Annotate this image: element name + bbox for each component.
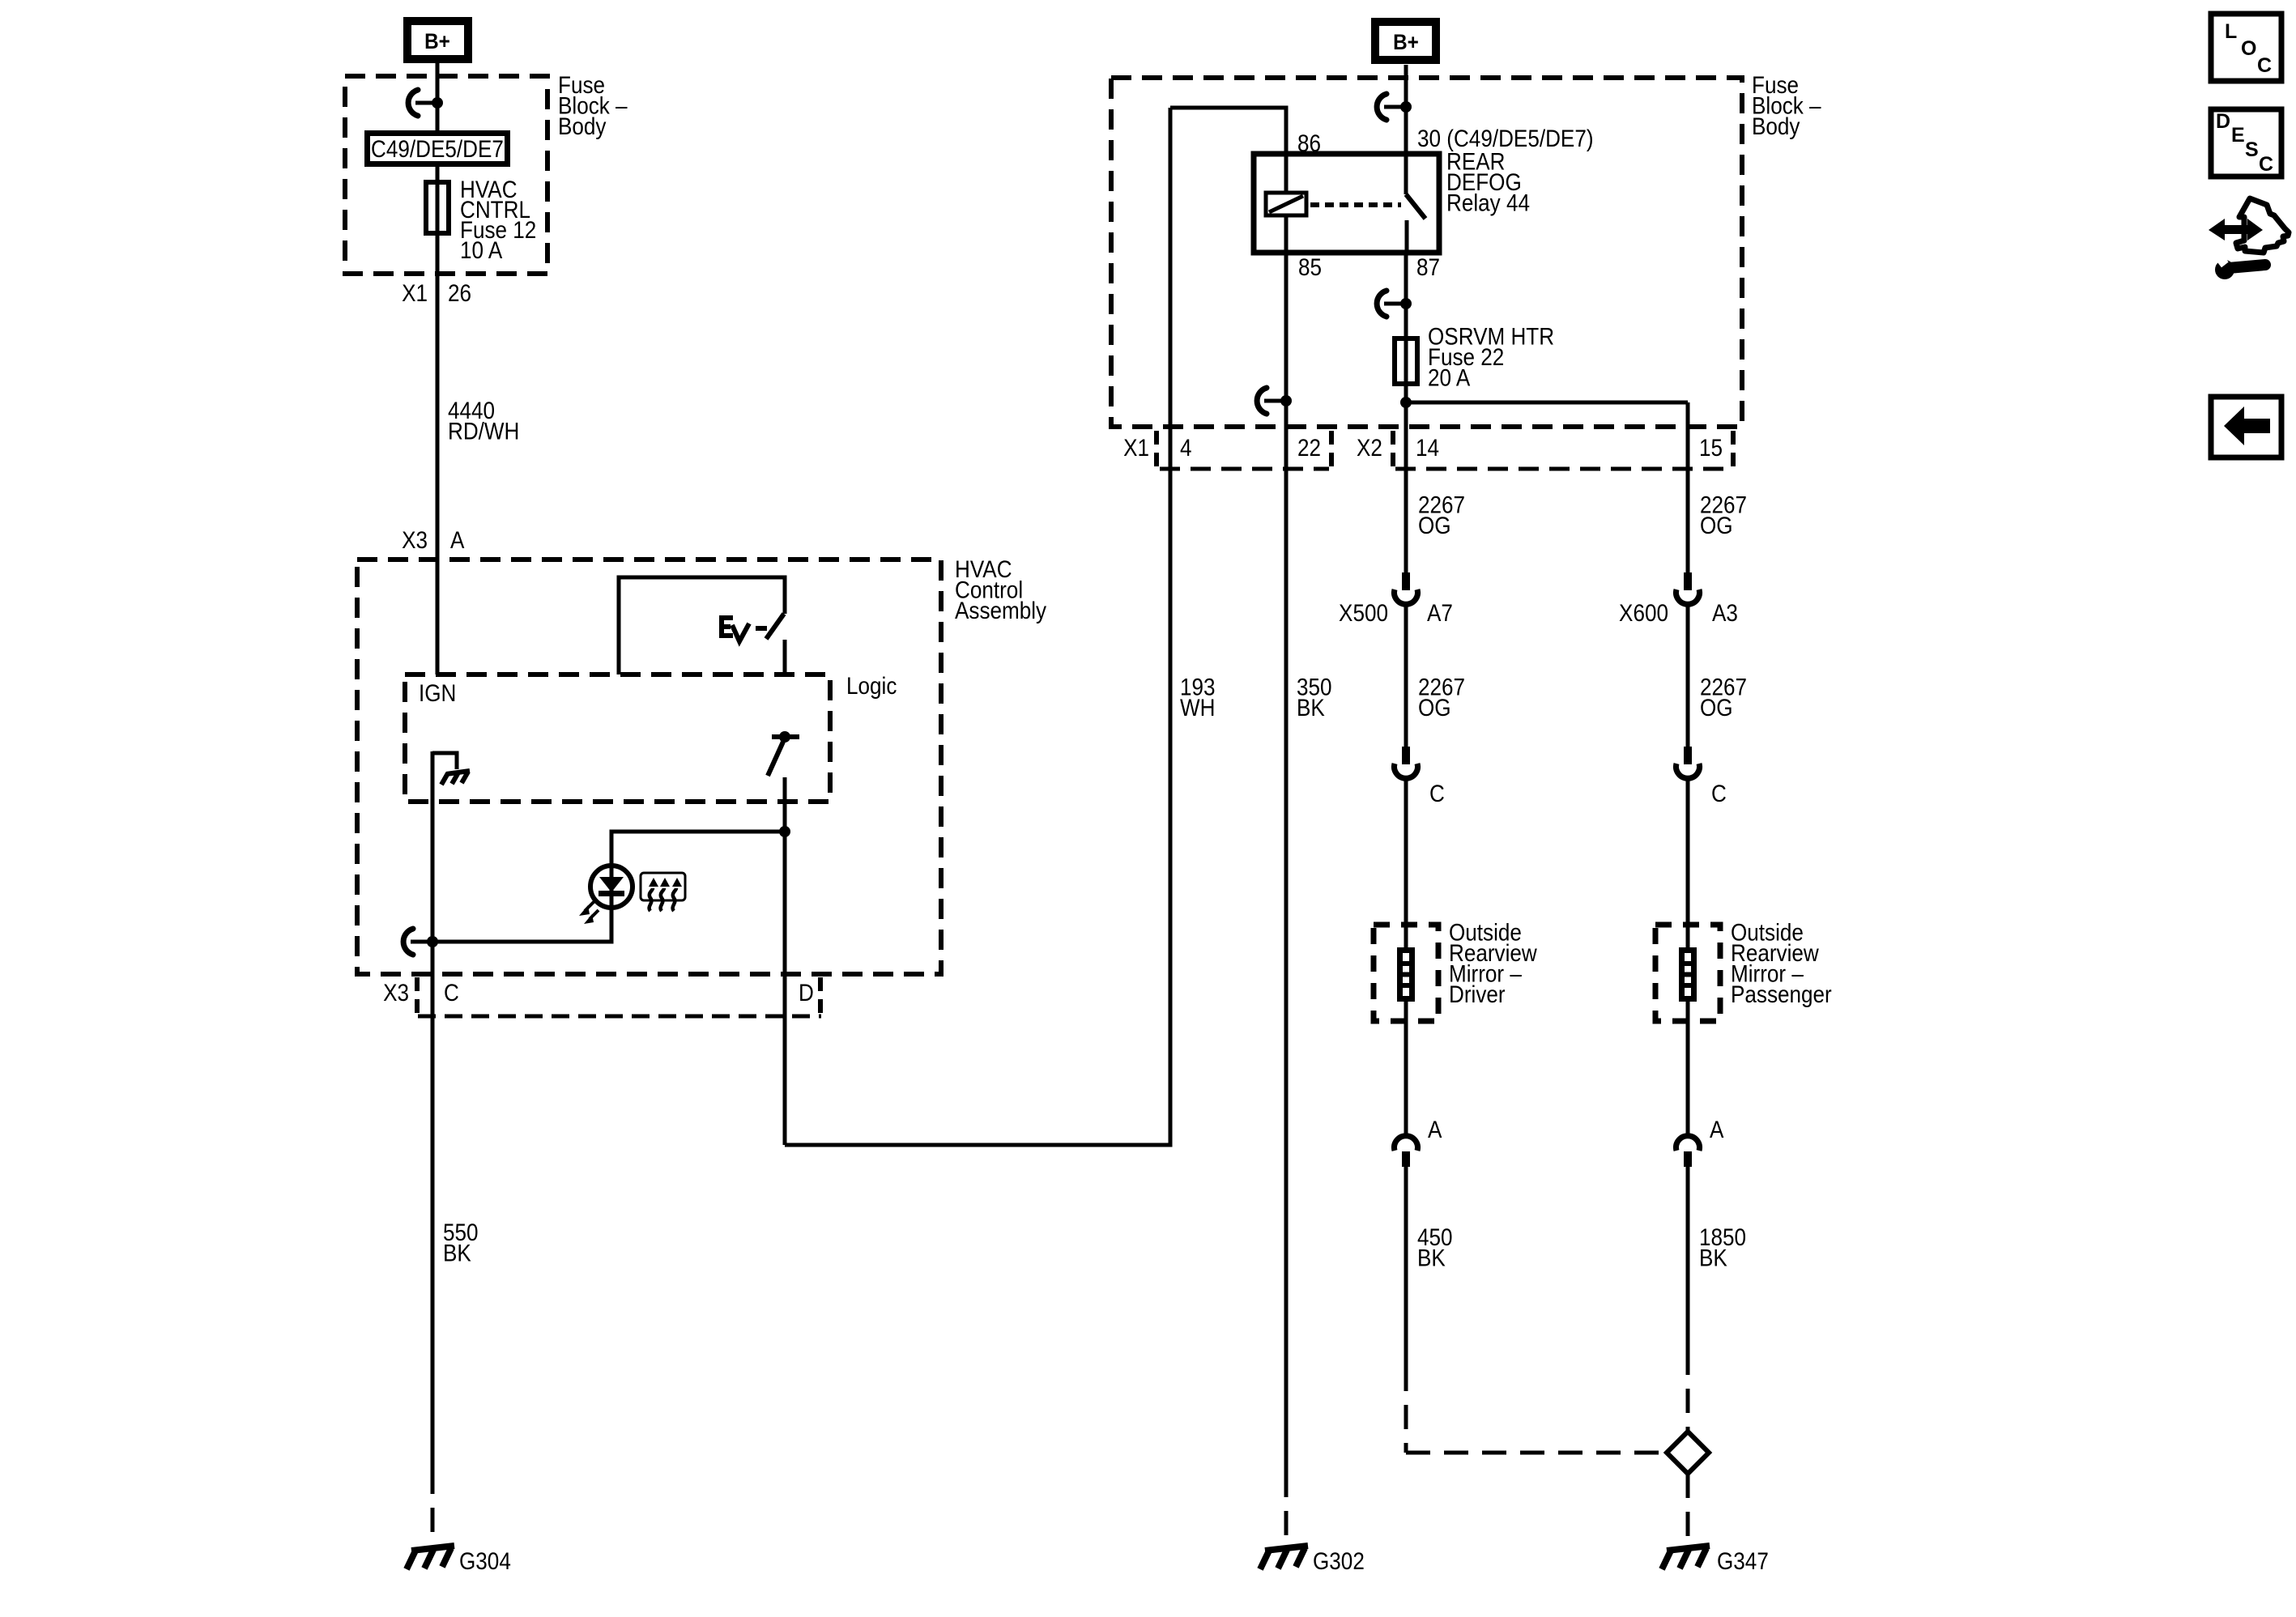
dashed wire 450 BK to splice [1406, 1367, 1667, 1453]
fuse block body (right) label [1752, 71, 1821, 139]
wire label 2267 OG (pin 15, upper) [1700, 491, 1747, 539]
wire 550 BK dashed to ground [431, 1470, 435, 1545]
svg-text:Assembly: Assembly [955, 597, 1046, 623]
Outside Rearview Mirror - Driver box and heater element [1374, 925, 1438, 1021]
svg-text:B+: B+ [424, 30, 450, 53]
connector X600 pin A3 [1676, 572, 1699, 604]
in-line clip at LED junction [403, 929, 438, 955]
svg-text:BK: BK [1699, 1245, 1727, 1271]
svg-text:G347: G347 [1717, 1547, 1769, 1574]
fuse block body (left) dashed box [345, 76, 547, 274]
svg-text:BK: BK [1297, 694, 1325, 721]
svg-text:X3: X3 [402, 526, 428, 553]
svg-text:IGN: IGN [419, 679, 456, 706]
svg-text:14: 14 [1416, 434, 1439, 461]
svg-text:OG: OG [1700, 512, 1733, 538]
connector X500 pin A7 [1395, 572, 1418, 604]
relay switch blade [1406, 194, 1425, 253]
svg-text:X500: X500 [1339, 599, 1388, 626]
wire label 2267 OG (pin 14, upper) [1418, 491, 1465, 539]
splice diamond [1667, 1432, 1709, 1474]
wire X600 to mirror passenger (2267 OG) [1686, 605, 1690, 747]
svg-text:86: 86 [1297, 130, 1321, 156]
DESC icon box [2211, 109, 2281, 177]
defog momentary switch blade [766, 614, 784, 639]
wire label 1850 BK [1699, 1223, 1746, 1271]
wire relay 87 to fuse 22 [1404, 253, 1408, 336]
svg-text:30 (C49/DE5/DE7): 30 (C49/DE5/DE7) [1417, 125, 1594, 151]
ground G302 label [1313, 1547, 1365, 1574]
connector C (passenger) [1676, 747, 1699, 778]
wire label 2267 OG (driver, lower) [1418, 674, 1465, 721]
in-line clip connector at left B+ feed [408, 90, 443, 116]
wire label 2267 OG (passenger, lower) [1700, 674, 1747, 721]
relay name label [1446, 148, 1530, 216]
svg-text:A3: A3 [1712, 599, 1738, 626]
dashed wire splice to ground G347 [1686, 1474, 1690, 1545]
svg-text:A: A [1710, 1116, 1724, 1143]
back arrow icon box [2211, 397, 2281, 457]
svg-text:A: A [450, 526, 465, 553]
svg-text:X600: X600 [1619, 599, 1668, 626]
wire X500 to mirror driver (2267 OG) [1404, 605, 1408, 747]
svg-text:BK: BK [443, 1240, 471, 1266]
logic output switch (internal) [768, 731, 799, 776]
ground G347 symbol [1662, 1546, 1710, 1569]
fuse block body (right) dashed box [1111, 78, 1742, 427]
wire label 550 BK [443, 1219, 479, 1266]
ground G304 label [459, 1547, 511, 1574]
svg-text:Body: Body [558, 113, 606, 139]
wire 450 BK down (solid then dashed) [1404, 1167, 1408, 1367]
wire pin 15 branch down [1686, 402, 1690, 572]
relay pin labels 85 / 87 [1298, 253, 1440, 280]
svg-text:X3: X3 [383, 979, 409, 1006]
wire mirror passenger to connector A [1686, 1002, 1690, 1134]
svg-text:D: D [799, 979, 814, 1006]
svg-text:C: C [2257, 54, 2272, 77]
wire logic switch to D pin [783, 777, 787, 1145]
svg-text:26: 26 [448, 279, 471, 306]
svg-text:C: C [1711, 780, 1727, 806]
svg-text:85: 85 [1298, 253, 1322, 280]
junction LED branch / ground wire [427, 936, 438, 947]
internal chassis ground symbol [441, 771, 470, 785]
wire fuse 22 to junction and pin 14 [1404, 386, 1408, 572]
wire 1850 BK down (solid then dashed) [1686, 1167, 1690, 1432]
svg-text:Relay 44: Relay 44 [1446, 189, 1530, 216]
wire D jog to 193 WH [785, 108, 1170, 1145]
svg-text:Body: Body [1752, 113, 1800, 139]
hand with wrench icon [2209, 198, 2289, 279]
svg-text:Driver: Driver [1449, 981, 1506, 1007]
fuse 22 value label [1428, 323, 1554, 391]
HVAC X3 connector row [383, 977, 821, 1016]
svg-text:OG: OG [1418, 512, 1451, 538]
svg-text:G302: G302 [1313, 1547, 1365, 1574]
Logic label [846, 672, 897, 699]
svg-text:Passenger: Passenger [1731, 981, 1832, 1007]
heated rear window indicator icon [641, 873, 685, 911]
svg-text:22: 22 [1297, 434, 1321, 461]
C label (passenger) [1711, 780, 1727, 806]
svg-text:C: C [2259, 153, 2273, 176]
wire C49 to fuse 12 [436, 167, 440, 180]
svg-text:C: C [444, 979, 459, 1006]
ground G347 label [1717, 1547, 1769, 1574]
connector C49/DE5/DE7 box [368, 134, 508, 164]
A label (driver) [1428, 1116, 1442, 1143]
Logic dashed box [405, 674, 830, 802]
wire relay 85 to pin 22 (350 BK) [1284, 253, 1289, 1473]
X500 / A7 labels [1339, 599, 1453, 626]
pin labels X1 | 26 [402, 279, 471, 306]
svg-text:C49/DE5/DE7: C49/DE5/DE7 [371, 135, 504, 162]
REAR DEFOG Relay 44 box [1254, 154, 1439, 253]
wire label 4440 RD/WH [448, 397, 519, 445]
connector A (passenger) [1676, 1136, 1699, 1167]
LED branch wire [611, 832, 785, 865]
svg-text:X2: X2 [1357, 434, 1382, 461]
wire 350 BK dashed to ground G302 [1284, 1473, 1289, 1545]
wire B+ to relay pin 30 [1404, 65, 1408, 194]
svg-text:A: A [1428, 1116, 1442, 1143]
Outside Rearview Mirror - Driver label [1449, 919, 1537, 1008]
LED indicator [590, 866, 633, 908]
C label (driver) [1429, 780, 1445, 806]
svg-text:OG: OG [1418, 694, 1451, 721]
svg-text:E: E [2231, 124, 2245, 147]
fuse 12 value label [460, 176, 536, 263]
svg-text:D: D [2216, 110, 2230, 133]
wire C to mirror heater (passenger) [1686, 779, 1690, 947]
connector A (driver) [1395, 1136, 1418, 1167]
svg-text:87: 87 [1416, 253, 1440, 280]
wire label 350 BK [1297, 674, 1332, 721]
switch actuator symbol E v - [722, 615, 767, 641]
HVAC CNTRL fuse 12 symbol [426, 180, 449, 236]
svg-text:L: L [2225, 20, 2237, 43]
svg-text:X1: X1 [402, 279, 428, 306]
wire relay pin 86 loop to 193 WH [1170, 108, 1286, 154]
fuse block X1/X2 connector row [1123, 431, 1733, 469]
svg-text:15: 15 [1699, 434, 1723, 461]
wire fuse 12 to HVAC control assembly (4440 RD/WH) [436, 236, 440, 674]
svg-text:10 A: 10 A [460, 236, 502, 263]
wire C to mirror heater (driver) [1404, 779, 1408, 947]
B+ power terminal (left) [407, 21, 468, 59]
ground G304 symbol [407, 1546, 454, 1569]
svg-text:A7: A7 [1427, 599, 1453, 626]
LED emission arrows [579, 900, 598, 924]
internal ground wire (logic) [432, 753, 457, 769]
in-line clip below pin 87 [1377, 291, 1412, 317]
Outside Rearview Mirror - Passenger label [1731, 919, 1832, 1008]
svg-text:20 A: 20 A [1428, 364, 1470, 391]
OSRVM HTR fuse 22 symbol [1395, 336, 1417, 386]
wire internal ground down to X3/C [431, 751, 435, 1470]
svg-text:X1: X1 [1123, 434, 1149, 461]
HVAC Control Assembly label [955, 555, 1046, 623]
relay pin labels 86 / 30 [1297, 125, 1594, 156]
svg-text:G304: G304 [459, 1547, 511, 1574]
in-line clip on 85 wire [1257, 388, 1292, 414]
ground G302 symbol [1260, 1546, 1308, 1569]
svg-text:O: O [2241, 37, 2256, 60]
svg-text:OG: OG [1700, 694, 1733, 721]
wire LED to ground wire junction [432, 908, 611, 942]
wire B+ to fuse block (left) [436, 63, 440, 130]
svg-text:B+: B+ [1393, 31, 1419, 54]
junction D wire to LED branch [779, 826, 790, 837]
IGN label [419, 679, 456, 706]
fuse block body (left) label [558, 71, 628, 139]
wire label 193 WH [1180, 674, 1216, 721]
svg-text:BK: BK [1417, 1245, 1446, 1271]
svg-text:C: C [1429, 780, 1445, 806]
wire label 450 BK [1417, 1223, 1453, 1271]
connector C (driver) [1395, 747, 1418, 778]
B+ power terminal (middle) [1375, 22, 1436, 60]
X600 / A3 labels [1619, 599, 1738, 626]
junction to pin 15 branch [1400, 397, 1688, 408]
A label (passenger) [1710, 1116, 1724, 1143]
Outside Rearview Mirror - Passenger box and heater element [1655, 925, 1720, 1021]
svg-text:Logic: Logic [846, 672, 897, 699]
pin labels X3 | A [402, 526, 465, 553]
in-line clip at middle B+ feed [1377, 94, 1412, 120]
LOC icon box [2211, 14, 2281, 81]
svg-text:4: 4 [1180, 434, 1192, 461]
HVAC Control Assembly dashed box [357, 560, 941, 974]
svg-text:RD/WH: RD/WH [448, 418, 519, 445]
relay actuating dashed link [1310, 202, 1401, 207]
wire mirror driver to connector A [1404, 1002, 1408, 1134]
defog switch wire loop [619, 577, 785, 674]
relay coil [1266, 154, 1306, 253]
svg-text:S: S [2245, 138, 2259, 161]
svg-text:WH: WH [1180, 694, 1215, 721]
